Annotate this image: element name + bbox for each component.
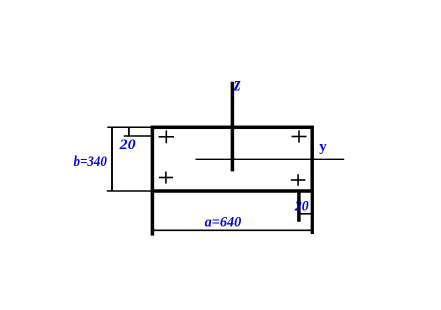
centroid mark top-right	[292, 130, 307, 142]
section outline rectangle	[152, 127, 312, 191]
dimension b extension line top	[107, 126, 152, 128]
y axis line	[196, 158, 345, 160]
svg-text:z: z	[233, 74, 240, 96]
svg-text:b=340: b=340	[74, 154, 108, 170]
svg-text:20: 20	[294, 199, 309, 215]
wall thickness 20 extension line bottom-right (thick)	[297, 191, 301, 222]
dimension a extension line left (thick)	[151, 191, 155, 236]
wall thickness 20 dimension line bottom-right	[299, 213, 312, 215]
centroid mark bottom-left	[159, 172, 173, 184]
svg-text:20: 20	[119, 137, 137, 153]
svg-text:y: y	[319, 139, 327, 155]
centroid mark bottom-right	[291, 174, 306, 186]
dimension b vertical line	[111, 128, 113, 191]
svg-text:a=640: a=640	[205, 215, 242, 231]
wall thickness 20 dimension line top-left	[124, 135, 153, 137]
wall thickness 20 tick top-left	[128, 127, 130, 136]
dimension b extension line bottom	[107, 190, 153, 192]
z axis line	[231, 82, 235, 172]
dimension a extension line right (thick)	[311, 191, 314, 234]
centroid mark top-left	[159, 130, 174, 143]
dimension a line	[153, 229, 312, 231]
